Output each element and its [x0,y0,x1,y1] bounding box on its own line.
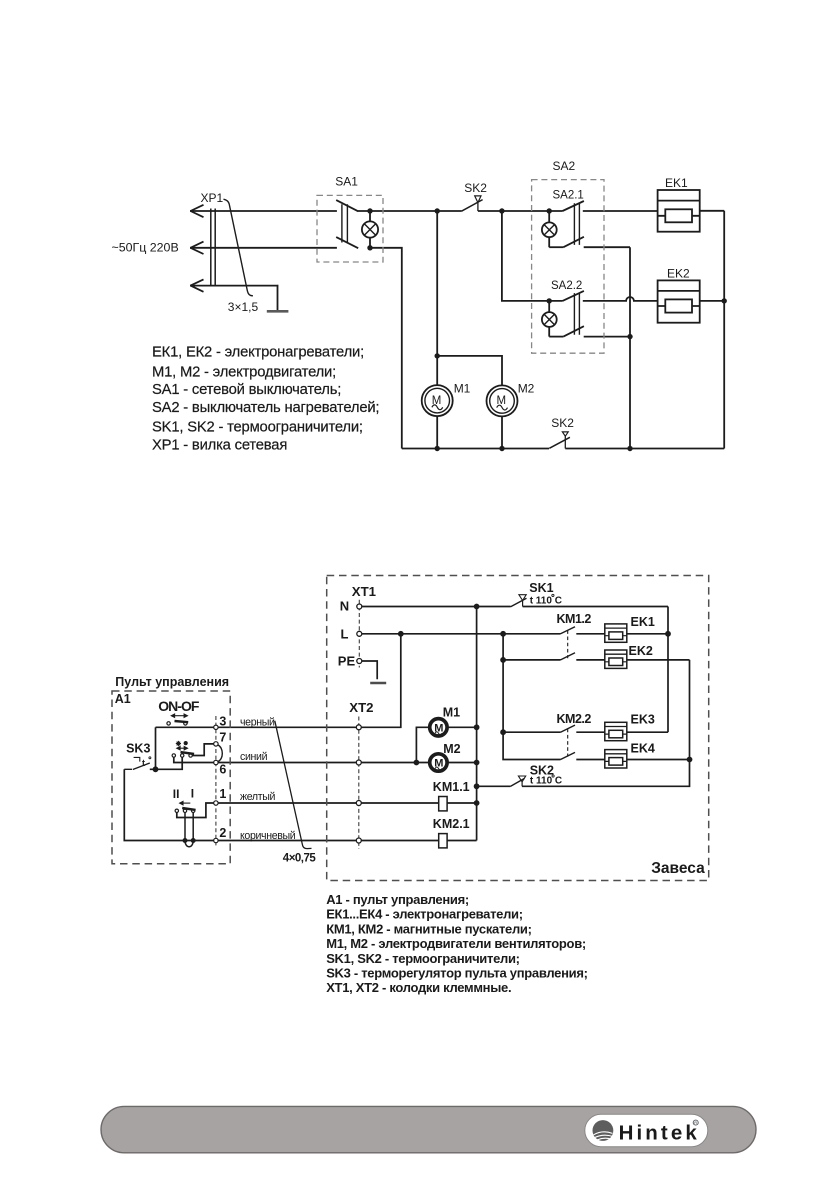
motor M1 tilde c2 [435,732,442,735]
wire SA2.2 lamp bottom run [549,336,563,338]
wire EK2 output [627,659,690,661]
thermal switch SK1 arm [511,598,527,607]
svg-text:M2: M2 [518,381,535,395]
mode switch star symbol [176,741,181,746]
contact KM1.2 link dashed [567,630,569,658]
svg-text:EK2: EK2 [629,644,653,658]
wire ON-OF drop [155,727,157,769]
wire M1 feeder [436,211,438,385]
wire lamp stem SA1 [369,211,371,248]
svg-text:XT1: XT1 [352,584,376,599]
wire SK2 left branch [477,785,511,787]
svg-text:II: II [173,787,180,801]
svg-text:A1: A1 [115,692,131,706]
svg-text:черный: черный [240,716,275,728]
svg-text:ЕК1, ЕК2 - электронагреватели;: ЕК1, ЕК2 - электронагреватели; [152,344,364,360]
svg-text:SK1: SK1 [529,581,553,595]
II/I switch legs [185,813,193,841]
ground bar PE [370,682,386,684]
wire KM1.1 output [447,802,477,804]
svg-text:M: M [432,395,442,407]
legend circuit 1 [152,344,379,453]
wire SA1 output bottom to down rail [370,248,402,449]
svg-text:SK1, SK2 - термоограничители;: SK1, SK2 - термоограничители; [152,419,363,435]
SK1 thermal triangle [519,595,526,601]
switch II/I arrow [180,801,191,804]
heater EK2 symbol [605,650,627,668]
wire SA2.2 bottom output [584,336,630,338]
leader 4x0,75 [275,721,312,849]
heater EK3 symbol [605,722,627,740]
legend circuit 2 [326,892,587,995]
heater EK1 symbol [605,624,627,642]
wire EK1 output [700,210,725,212]
footer logo oval [585,1114,708,1146]
PART1 [124,595,689,849]
motor M2 tilde c2 [435,767,442,770]
arrow XP1 pin2 [191,242,204,254]
A1 terminal 2 [214,838,218,842]
wire left contact bus x503 [503,634,560,760]
svg-text:EK3: EK3 [631,713,655,727]
svg-text:t 110 C: t 110 C [530,776,562,787]
heater EK1 box [658,190,700,232]
wire M2 right stub [447,762,476,764]
mode switch bridge [181,752,195,754]
thermal switch SK2 bottom arm [549,437,570,448]
svg-text:ХР1 - вилка сетевая: ХР1 - вилка сетевая [152,438,287,454]
mode switch contacts [172,754,175,757]
svg-text:М1, М2 - электродвигатели;: М1, М2 - электродвигатели; [152,365,336,381]
wire SA2.1 top output to EK1 [583,210,658,212]
plug XP1 double bars [211,209,215,287]
svg-text:KM2.2: KM2.2 [557,712,592,726]
XT1 terminal dashed strip [358,600,360,668]
switch SA2.2 top arm [563,291,584,301]
coil KM2.1 [439,834,447,848]
svg-text:Завеса: Завеса [651,860,705,877]
SK2 bottom stem [564,436,566,448]
svg-text:EK2: EK2 [667,267,690,281]
lamp HL in SA1 [362,221,378,237]
wire zhelty row [177,803,439,818]
SA1 mechanical link bars [342,204,348,242]
wire SA2.1 lamp bottom run [549,246,563,248]
switch SK3 arm [124,763,150,770]
svg-text:KM1.1: KM1.1 [433,780,470,794]
wire SA2.1 bottom output [584,246,630,248]
wire L row [362,633,561,635]
SA2.1 link bars [574,203,579,245]
contact KM2.2 link dashed [567,729,569,757]
XT1 terminal L [357,631,362,636]
jumper terminal 7 to 6 [218,745,223,762]
switch ON-OF bridge [175,721,189,722]
svg-text:SA2.1: SA2.1 [553,189,584,201]
XT1 terminal N [357,604,362,609]
svg-text:~50Гц 220В: ~50Гц 220В [112,241,179,255]
SK2 degree circle [552,775,554,777]
Hintek globe [593,1120,614,1141]
svg-text:EK1: EK1 [631,615,655,629]
motor M2 ring [430,754,447,771]
svg-text:желтый: желтый [240,791,276,803]
wire SK3 row to mode switch [150,757,182,769]
wire EK4 row mid [576,759,605,761]
heater EK2 box [658,280,700,322]
svg-text:ХТ1, ХТ2 - колодки клеммные.: ХТ1, ХТ2 - колодки клеммные. [326,980,511,995]
svg-text:t: t [142,758,145,768]
lamp HL in SA2.1 [542,222,557,237]
wire SA2.2 top output with hop to EK2 [583,297,658,301]
svg-text:KM2.1: KM2.1 [433,817,470,831]
switch SA1 contact 1 arm [336,200,358,211]
svg-text:EK4: EK4 [631,741,655,755]
switch II/I bridge [182,808,195,810]
XT1 terminal PE [357,659,362,664]
svg-text:SA1: SA1 [335,174,358,188]
wire M1 bottom [436,416,438,448]
motor M1 tilde [432,405,443,410]
II/I U loop [185,841,193,847]
svg-text:SK1, SK2 - термоограничители;: SK1, SK2 - термоограничители; [326,951,520,966]
svg-text:4×0,75: 4×0,75 [283,853,317,865]
svg-text:KM1.2: KM1.2 [557,612,592,626]
SK1 stem [522,601,524,607]
svg-text:SK2: SK2 [464,181,487,195]
wire N row [362,606,511,608]
svg-text:SK3 - терморегулятор пульта уп: SK3 - терморегулятор пульта управления; [326,966,587,981]
svg-text:I: I [191,787,194,801]
SK3 thermal mark [134,757,140,761]
wire right bus x689 [522,660,690,786]
motor M1 ring [430,719,447,736]
wire L row to EK1 [576,633,605,635]
wire color labels [240,716,296,842]
A1 terminal dashed strip [215,716,217,848]
motor M1 [422,385,453,416]
wire right return bus x724 [723,211,725,449]
labels circuit 2 [115,581,705,877]
svg-text:SA1 - сетевой выключатель;: SA1 - сетевой выключатель; [152,382,341,398]
ground wire from L3 [277,286,280,311]
svg-text:SK2: SK2 [551,416,574,430]
svg-text:SA2: SA2 [553,159,576,173]
node dots circuit 1 [367,208,727,451]
wire korichnevy row [124,769,438,840]
contact KM2.2 upper arm [561,725,576,732]
SK2 top thermal triangle [475,196,481,203]
wire EK3 row [503,731,560,733]
coil KM1.1 [439,797,447,811]
switch SA2.1 bottom arm [563,237,584,247]
motor M2 tilde [497,405,508,410]
svg-text:Пульт управления: Пульт управления [115,675,229,689]
switch SA2.2 bottom arm [563,326,584,336]
XT2 terminal dashed strip [358,717,360,850]
SA1 dashed box [317,195,383,262]
svg-text:SA2.2: SA2.2 [551,280,582,292]
svg-text:А1 - пульт управления;: А1 - пульт управления; [326,892,469,907]
switch II/I contacts [175,809,178,812]
wire KM2.1 output [447,840,477,842]
ground bar [267,310,289,313]
SK2 thermal triangle [518,776,525,782]
svg-text:1: 1 [219,787,226,801]
wire M1 stubs [416,727,429,762]
wire EK1 output [627,633,668,635]
A1 terminal 7 [214,742,218,746]
svg-text:PE: PE [338,654,356,669]
wire PE stub and ground [362,661,377,679]
contact KM2.2 lower arm [561,752,576,759]
svg-text:M: M [497,395,507,407]
Zavesa dashed box [327,576,709,881]
wire EK3 output [627,731,668,733]
wire EK3 row mid [576,731,605,733]
svg-text:L: L [341,626,349,641]
svg-text:7: 7 [219,731,226,745]
wire N row after SK1 [523,606,668,608]
SA2 dashed box [532,180,604,354]
svg-text:R: R [694,1121,697,1125]
footer bar [101,1106,756,1152]
node dots circuit 2 [153,604,693,843]
switch SA2.1 top arm [563,201,584,211]
wire M2 feeder branch [437,356,502,386]
heater EK4 symbol [605,750,627,768]
wire bottom rail [402,448,549,450]
svg-text:М1, М2 - электродвигатели вент: М1, М2 - электродвигатели вентиляторов; [326,936,586,951]
SK2 stem [521,782,523,787]
svg-text:t 110 C: t 110 C [530,595,562,606]
XT2 terminal zhelty [356,801,361,806]
wire cherny: terminal3 to L node [156,634,401,728]
svg-text:Hintek: Hintek [619,1121,700,1144]
labels circuit 1 [112,159,691,430]
switch ON-OF arrow [171,714,187,717]
mode switch dot symbol [184,741,188,745]
SA2.2 link bars [574,293,579,335]
svg-text:КМ1, КМ2 - магнитные пускатели: КМ1, КМ2 - магнитные пускатели; [326,922,531,937]
wire SA2.2 feeder from node [502,211,563,301]
svg-text:ЕК1...ЕК4 - электронагреватели: ЕК1...ЕК4 - электронагреватели; [326,907,523,922]
motor M2 [487,385,518,416]
switch SA1 contact 2 arm [336,237,358,248]
wire SA2.1 lamp stem [548,211,550,247]
svg-text:M1: M1 [443,706,460,720]
svg-text:SA2 - выключатель нагревателей: SA2 - выключатель нагревателей; [152,400,379,416]
SK3 t-degree mark [149,757,151,759]
leader line XP1 [224,199,253,296]
A1 terminal 3 [214,725,218,729]
thermal switch SK2 top arm [462,200,483,212]
wire siniy row [174,757,430,762]
XT2 terminal korichnevy [356,838,361,843]
switch ON-OF contacts [167,722,170,725]
wire L1 top phase line [190,210,337,212]
wire EK2 row mid [576,659,605,661]
XT2 terminal siniy [356,760,361,765]
A1 terminal 1 [214,801,218,805]
svg-text:SK3: SK3 [126,741,150,755]
svg-text:N: N [340,599,349,614]
arrow XP1 pin1 [191,205,204,217]
wire L2 second line [190,247,337,249]
wire EK4 output [627,759,690,761]
lamp HL in SA2.2 [542,312,557,327]
svg-text:3: 3 [219,715,226,729]
wire mode switch to terminal 7 [192,744,214,756]
arrow XP1 pin3 [191,279,204,291]
svg-text:синий: синий [240,751,268,763]
A1 pult dashed box [112,691,230,864]
wire M2 bottom [501,416,503,448]
wire EK2 row [503,659,560,661]
A1 terminal 6 [214,760,218,764]
svg-text:XT2: XT2 [349,700,373,715]
svg-text:XP1: XP1 [201,191,224,205]
Hintek R mark [693,1120,698,1125]
SK2 bottom thermal triangle [562,432,568,436]
svg-text:EK1: EK1 [665,176,688,190]
svg-text:3×1,5: 3×1,5 [228,300,259,314]
XT2 terminal cherny [356,725,361,730]
svg-text:коричневый: коричневый [240,830,296,842]
svg-text:ON-OF: ON-OF [158,698,200,714]
wire N bus x476 [476,607,478,841]
contact KM1.2 lower arm [561,653,576,660]
contact KM1.2 upper arm [561,627,576,634]
wire vertical lamp return x630 [629,247,631,448]
svg-text:M2: M2 [443,742,460,756]
wire right bus x668 [667,607,669,733]
svg-text:M1: M1 [454,381,471,395]
SK1 degree circle [552,594,554,596]
wire L3 PE line [190,285,278,287]
svg-text:6: 6 [219,763,226,777]
wire EK2 output [700,300,725,302]
mode switch arrow [177,747,188,750]
svg-text:2: 2 [219,826,226,840]
wire SA2.2 lamp stem [548,301,550,337]
thermal switch SK2 arm [510,778,524,786]
SK2 top stem [477,203,479,211]
